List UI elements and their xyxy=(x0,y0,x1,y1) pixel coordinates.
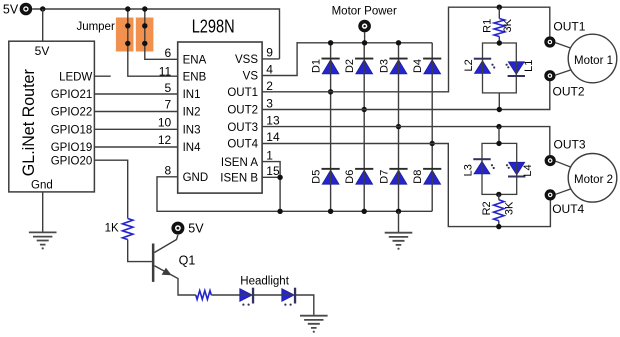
connector 5V main xyxy=(20,3,33,16)
diode D3 xyxy=(390,60,407,74)
wire GPIO21-IN1 xyxy=(95,93,178,95)
wire GPIO22-IN2 xyxy=(95,111,178,113)
svg-text:OUT4: OUT4 xyxy=(552,202,584,216)
router box U2 GL.iNet xyxy=(9,41,95,192)
svg-text:L1: L1 xyxy=(523,60,535,72)
svg-text:GL.iNet Router: GL.iNet Router xyxy=(20,69,38,176)
wire diode column D1/D5 xyxy=(330,43,332,212)
svg-text:GPIO22: GPIO22 xyxy=(51,107,93,119)
svg-text:5V: 5V xyxy=(3,2,19,16)
node jumper1 top xyxy=(125,6,130,11)
wire ISENA xyxy=(262,162,280,212)
svg-text:GPIO21: GPIO21 xyxy=(51,89,93,101)
svg-text:OUT4: OUT4 xyxy=(227,139,258,151)
diode D8 xyxy=(424,170,441,184)
motor M1 xyxy=(568,34,617,83)
diode D5 xyxy=(322,170,339,184)
svg-text:D8: D8 xyxy=(412,170,424,184)
svg-text:6: 6 xyxy=(165,46,172,60)
wire R1 leads xyxy=(498,7,500,43)
svg-text:Headlight: Headlight xyxy=(240,276,289,288)
svg-text:GPIO20: GPIO20 xyxy=(51,155,93,167)
wire OUT4 to motor xyxy=(556,189,571,194)
svg-text:VSS: VSS xyxy=(235,54,258,66)
svg-text:3K: 3K xyxy=(504,201,516,215)
connector OUT1 xyxy=(544,36,555,47)
wire gnd stem diodes xyxy=(398,211,400,232)
transistor Q1 xyxy=(152,244,155,282)
svg-text:Motor 2: Motor 2 xyxy=(574,174,613,186)
svg-text:ISEN B: ISEN B xyxy=(220,173,258,185)
ground router xyxy=(29,232,57,244)
svg-text:3K: 3K xyxy=(502,18,514,32)
svg-text:Jumper: Jumper xyxy=(76,21,115,33)
svg-text:D1: D1 xyxy=(311,59,323,73)
svg-text:13: 13 xyxy=(266,113,280,127)
svg-text:OUT1: OUT1 xyxy=(553,19,585,33)
svg-text:D7: D7 xyxy=(379,170,391,184)
svg-text:Motor Power: Motor Power xyxy=(332,5,397,17)
node gndrail D5 xyxy=(328,209,333,214)
svg-text:ENA: ENA xyxy=(183,55,207,67)
svg-text:D5: D5 xyxy=(311,170,323,184)
svg-text:OUT3: OUT3 xyxy=(227,122,258,134)
ic U1 L298N box xyxy=(178,42,262,193)
node jumper2 pin b xyxy=(142,41,147,46)
wire motor power drop xyxy=(364,32,366,42)
svg-text:3: 3 xyxy=(266,96,273,110)
connector OUT2 xyxy=(544,70,555,81)
resistor headlight xyxy=(196,291,212,300)
jumper block 1 xyxy=(116,18,134,52)
svg-text:12: 12 xyxy=(158,133,172,147)
svg-text:L2: L2 xyxy=(463,59,475,71)
wire to LED1 xyxy=(211,294,240,296)
wire 5V rail xyxy=(32,9,279,59)
wire OUT2 to motor xyxy=(555,70,570,75)
node jumper1 pin a xyxy=(125,23,130,28)
svg-text:2: 2 xyxy=(266,79,273,93)
led L2 xyxy=(475,61,491,74)
wire base xyxy=(128,240,152,262)
svg-text:9: 9 xyxy=(266,45,273,59)
wire OUT1 net xyxy=(262,7,550,92)
node OUT1-D1 xyxy=(328,89,333,94)
wire GPIO19-IN4 xyxy=(95,146,178,148)
led headlight 2 xyxy=(282,289,294,302)
svg-text:IN1: IN1 xyxy=(183,89,201,101)
diode D4 xyxy=(424,60,441,74)
node R2 bottom xyxy=(496,224,501,229)
wire GPIO18-IN3 xyxy=(95,128,178,130)
connector 5V Q1 xyxy=(171,222,184,235)
ground diodes xyxy=(385,233,413,245)
wire diode column D2/D6 xyxy=(363,43,365,212)
wire GPIO20 xyxy=(95,160,128,218)
wire diode column D3/D7 xyxy=(398,43,400,212)
wire OUT3 to motor xyxy=(556,161,571,167)
diode D1 xyxy=(322,60,339,74)
motor M2 xyxy=(568,154,617,203)
wire OUT4 net xyxy=(262,144,550,227)
led headlight 1 xyxy=(240,289,252,302)
diode D6 xyxy=(356,170,373,184)
wire OUT2 net xyxy=(262,81,550,110)
wire LED1-LED2 xyxy=(254,294,282,296)
svg-text:Motor 1: Motor 1 xyxy=(574,55,613,67)
node jumper2 pin a xyxy=(142,23,147,28)
svg-text:OUT3: OUT3 xyxy=(554,138,586,152)
wire OUT3 net xyxy=(262,127,550,155)
led L3 xyxy=(474,161,490,174)
wire OUT3 to box2 xyxy=(498,127,500,144)
svg-text:ISEN A: ISEN A xyxy=(221,157,258,169)
svg-text:D2: D2 xyxy=(344,59,356,73)
node rail D1 xyxy=(328,40,333,45)
svg-text:5V: 5V xyxy=(35,44,50,58)
node ISEN rail xyxy=(277,209,282,214)
svg-text:D4: D4 xyxy=(412,59,424,73)
svg-text:5: 5 xyxy=(165,81,172,95)
svg-text:1: 1 xyxy=(266,148,273,162)
wire R2 leads xyxy=(498,194,500,226)
wire LED2 to gnd xyxy=(296,295,314,316)
svg-text:OUT2: OUT2 xyxy=(227,105,258,117)
wire GND pin8 and rail xyxy=(157,177,432,212)
resistor R2 3K xyxy=(494,200,504,221)
wire LEDW stub xyxy=(95,75,111,77)
svg-text:GPIO18: GPIO18 xyxy=(51,125,93,137)
svg-text:GPIO19: GPIO19 xyxy=(51,142,93,154)
svg-text:GND: GND xyxy=(183,172,209,184)
svg-text:OUT2: OUT2 xyxy=(553,84,585,98)
resistor R1 3K xyxy=(494,19,504,37)
node rail D3 xyxy=(396,40,401,45)
node gndrail D6 xyxy=(362,209,367,214)
node 5V router tap xyxy=(40,6,45,11)
wire 5V to router xyxy=(42,9,44,41)
wire jumper ENA xyxy=(145,9,178,59)
resistor 1K xyxy=(123,219,133,240)
svg-text:R1: R1 xyxy=(482,19,494,33)
led box motor2 xyxy=(482,143,517,194)
node led box2 top xyxy=(496,141,501,146)
led L1 xyxy=(508,62,524,75)
svg-text:D3: D3 xyxy=(379,59,391,73)
svg-text:11: 11 xyxy=(159,64,172,78)
led box motor1 xyxy=(483,43,517,93)
svg-text:D6: D6 xyxy=(344,170,356,184)
node OUT2-D2 xyxy=(362,107,367,112)
node ISEN join xyxy=(277,175,282,180)
node jumper2 top xyxy=(142,6,147,11)
node rail MP xyxy=(362,40,367,45)
node gndrail D7 xyxy=(396,209,401,214)
svg-text:ENB: ENB xyxy=(183,71,207,83)
wire VSS stub xyxy=(262,58,279,60)
svg-text:IN2: IN2 xyxy=(183,107,201,119)
svg-text:Q1: Q1 xyxy=(179,254,196,268)
svg-text:VS: VS xyxy=(243,71,259,83)
node box1 OUT2 xyxy=(497,107,502,112)
wire V+ rail xyxy=(297,42,432,44)
wire led box1 to OUT2 xyxy=(498,93,500,110)
node OUT3 feed xyxy=(496,124,501,129)
svg-text:LEDW: LEDW xyxy=(59,71,92,83)
svg-text:IN4: IN4 xyxy=(183,142,202,154)
node jumper1 pin b xyxy=(125,41,130,46)
node led box2 bottom xyxy=(496,192,501,197)
svg-text:5V: 5V xyxy=(188,222,204,236)
svg-text:R2: R2 xyxy=(481,201,493,215)
wire OUT1 to motor xyxy=(555,43,570,48)
svg-text:L4: L4 xyxy=(522,164,534,176)
svg-text:IN3: IN3 xyxy=(183,125,201,137)
wire VS to rail xyxy=(262,42,297,76)
svg-text:OUT1: OUT1 xyxy=(227,87,258,99)
node R1 top xyxy=(497,5,502,10)
wire ISENB xyxy=(262,176,280,178)
wire router gnd xyxy=(42,192,44,232)
diode D7 xyxy=(390,170,407,184)
svg-text:L3: L3 xyxy=(462,164,474,176)
svg-text:7: 7 xyxy=(165,98,172,112)
svg-text:14: 14 xyxy=(266,130,280,144)
diode D2 xyxy=(356,60,373,74)
svg-text:L298N: L298N xyxy=(192,16,235,37)
svg-text:Gnd: Gnd xyxy=(31,179,53,191)
jumper block 2 xyxy=(136,18,154,52)
wire diode column D4/D8 xyxy=(431,43,433,212)
svg-text:1K: 1K xyxy=(105,223,119,235)
connector OUT3 xyxy=(545,155,556,166)
node OUT4-D4 xyxy=(430,141,435,146)
ground headlight xyxy=(300,316,328,328)
connector OUT4 xyxy=(545,189,556,200)
connector Motor Power xyxy=(358,20,371,33)
svg-text:8: 8 xyxy=(165,164,172,178)
svg-text:4: 4 xyxy=(266,63,273,77)
svg-text:10: 10 xyxy=(158,115,172,129)
node led box1 top xyxy=(497,40,502,45)
node OUT3-D3 xyxy=(396,124,401,129)
wire jumper ENB xyxy=(128,9,178,76)
led L4 xyxy=(509,162,525,175)
